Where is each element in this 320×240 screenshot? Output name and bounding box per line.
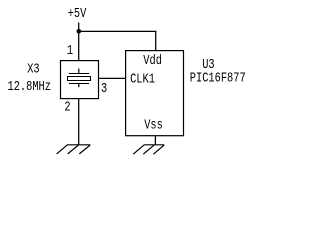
wire +5V horizontal to Vdd bbox=[78, 30, 156, 32]
svg-text:CLK1: CLK1 bbox=[130, 71, 155, 87]
svg-text:Vss: Vss bbox=[144, 117, 163, 133]
svg-text:12.8MHz: 12.8MHz bbox=[8, 79, 51, 95]
pin name CLK1 bbox=[130, 71, 155, 87]
wire +5V lead (vertical from +5V down to crystal box pin 1) bbox=[78, 23, 80, 61]
crystal symbol quartz rectangle bbox=[68, 77, 91, 81]
part number PIC16F877 bbox=[190, 70, 246, 86]
reference designator U3 bbox=[202, 57, 214, 73]
ground symbol under crystal bbox=[57, 145, 91, 154]
wire crystal pin 2 down to ground bbox=[78, 99, 80, 145]
crystal symbol top plate bbox=[69, 73, 89, 75]
ground symbol under U3 Vss bbox=[133, 145, 164, 154]
svg-text:+5V: +5V bbox=[68, 5, 87, 21]
IC U3 body box bbox=[126, 51, 184, 136]
reference designator X3 bbox=[27, 61, 39, 77]
svg-text:3: 3 bbox=[101, 81, 107, 97]
pin number 1 (crystal top pin) bbox=[67, 43, 73, 59]
wire crystal pin 3 to CLK1 of U3 bbox=[99, 77, 126, 79]
pin name Vdd bbox=[143, 52, 162, 68]
crystal symbol top lead stub bbox=[78, 69, 80, 74]
pin name Vss bbox=[144, 117, 163, 133]
pin number 3 (crystal output pin) bbox=[101, 81, 107, 97]
wire Vss lead down to ground bbox=[154, 136, 156, 145]
value label 12.8MHz bbox=[8, 79, 51, 95]
svg-text:1: 1 bbox=[67, 43, 73, 59]
svg-text:Vdd: Vdd bbox=[143, 52, 162, 68]
crystal symbol bottom lead stub bbox=[78, 84, 80, 88]
svg-text:PIC16F877: PIC16F877 bbox=[190, 70, 246, 86]
crystal X3 body box bbox=[61, 61, 99, 99]
crystal symbol bottom plate bbox=[69, 83, 89, 85]
junction dot on +5V net bbox=[77, 29, 82, 34]
svg-text:2: 2 bbox=[64, 99, 70, 115]
power net +5V label bbox=[68, 5, 87, 21]
pin number 2 (crystal bottom pin) bbox=[64, 99, 70, 115]
wire vertical drop into Vdd pin of U3 bbox=[155, 31, 157, 51]
svg-text:X3: X3 bbox=[27, 61, 39, 77]
